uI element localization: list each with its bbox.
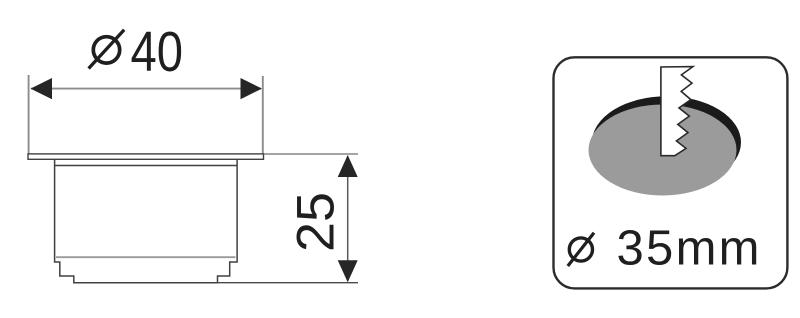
svg-text:25: 25 [287,192,346,252]
dimension line Ø40 [31,88,261,90]
arrowhead right (Ø40) [241,78,263,99]
extension line right (Ø40) [262,76,264,159]
jigsaw blade [661,67,693,156]
inner construction line near bottom [56,256,236,258]
arrowhead left (Ø40) [31,78,53,99]
arrowhead down (25) [338,260,358,282]
flange (top plate of fixture) [28,154,264,159]
body outline with stepped bottom [55,160,238,283]
dimension line 25 [347,156,349,281]
extension line top (25 dim, from flange top right) [264,153,358,155]
extension line bottom (25 dim, from part bottom) [218,282,359,284]
extension line left (Ø40) [28,75,30,154]
badge rounded frame [554,57,788,288]
lip line under flange [55,165,238,167]
hole dark ellipse [592,96,741,188]
dimension label Ø40 : diameter symbol [89,30,125,69]
svg-text:35mm: 35mm [617,222,760,276]
plug gray ellipse [589,105,737,196]
svg-text:40: 40 [131,20,184,83]
badge label Ø symbol [568,233,594,266]
arrowhead up (25) [338,155,358,177]
